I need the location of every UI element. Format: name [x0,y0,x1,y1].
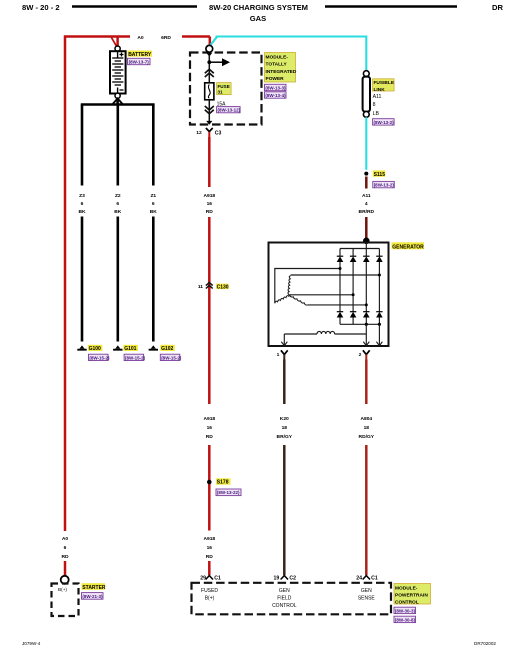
wire TIPM tap red drop [209,37,212,46]
wire label K20 [277,416,293,440]
svg-text:(8W-13-2): (8W-13-2) [374,120,395,125]
svg-text:GAS: GAS [250,14,266,23]
PCM pin name GEN FIELD CONTROL [272,588,297,609]
stator phase line 3 [290,294,354,296]
svg-text:RD: RD [61,554,69,560]
TIPM internal wire lower [208,100,210,122]
starter box [52,584,79,617]
svg-text:RD: RD [206,554,214,560]
connector C130 label [216,284,229,291]
svg-text:A804: A804 [360,416,372,422]
svg-text:(8W-13-4): (8W-13-4) [265,93,286,98]
connector C3 [196,128,221,137]
PCM pin name FUSED B+ [201,588,218,602]
svg-text:12: 12 [196,130,202,136]
svg-text:LINK: LINK [374,87,386,93]
ground G102 link [160,354,182,360]
wire A804 lower [365,445,368,575]
svg-text:(8W-13-2): (8W-13-2) [374,183,395,188]
svg-text:C130: C130 [217,284,229,290]
diode D2 top [350,256,357,262]
svg-text:BR/GY: BR/GY [277,434,293,440]
TIPM junction dot [207,60,211,64]
svg-text:BK: BK [78,209,86,215]
svg-text:BATTERY: BATTERY [128,52,152,58]
svg-text:(8W-13-3): (8W-13-3) [265,85,286,90]
wire label A918 upper [203,193,215,215]
stator phase line 1 [275,269,340,304]
starter label [82,583,106,591]
svg-text:DR702002: DR702002 [474,641,496,646]
TIPM exit arrowhead [206,121,212,125]
ground G101 label [123,345,137,352]
svg-text:(8W-30-8): (8W-30-8) [395,617,416,622]
stator coil B [275,295,290,303]
svg-text:BK: BK [150,209,158,215]
svg-text:C3: C3 [215,131,222,137]
stator coil C [290,295,308,305]
battery [110,51,126,93]
svg-text:(8W-13-7): (8W-13-7) [129,59,150,64]
generator B+ junction dot [363,238,370,245]
wire A11 BR/RD lower [365,217,368,239]
splice S115 [364,172,368,176]
battery link label [128,58,151,64]
svg-text:18: 18 [282,425,288,431]
field winding [284,324,379,345]
svg-text:(8W-15-2): (8W-15-2) [89,355,110,360]
battery label [128,51,153,58]
wire label A0 lower [61,536,69,560]
wire K20 lower [283,445,286,575]
ground G102 [149,345,158,349]
TIPM connector chevrons upper [205,69,214,77]
svg-text:A11: A11 [362,193,371,199]
diode D7 bottom [363,312,370,318]
TIPM branch arrow [209,58,230,66]
PCM terminal 29 [200,575,221,581]
stator phase line 4 [308,304,366,306]
fuse link label [217,107,241,113]
PCM module label [394,584,431,606]
svg-text:POWER: POWER [266,76,285,82]
generator pin 2 connector [359,350,370,359]
svg-text:BR/RD: BR/RD [359,209,375,215]
svg-text:(8W-13-12): (8W-13-12) [218,108,241,113]
generator label [392,242,425,250]
svg-text:(8W-15-2): (8W-15-2) [125,355,146,360]
svg-text:GEN: GEN [279,588,290,594]
svg-text:16: 16 [207,425,213,431]
svg-text:6: 6 [152,201,155,207]
svg-text:RD/GY: RD/GY [359,434,375,440]
svg-text:G101: G101 [124,346,136,352]
generator box [269,243,389,347]
svg-text:(8W-15-2): (8W-15-2) [161,355,182,360]
svg-text:CONTROL: CONTROL [395,599,419,605]
TIPM box [190,53,262,125]
fusible link wire labels [373,94,382,117]
wire A804 upper [365,360,368,405]
splice S115 label [373,170,386,177]
svg-text:1: 1 [277,352,280,358]
splice S178 label [216,478,231,485]
fuse F31 [205,83,214,100]
wire label A11 [359,193,375,215]
svg-text:C2: C2 [289,576,296,582]
ground bus [81,103,155,106]
PCM link 1 [394,607,416,613]
wire A0 6RD top horizontal [65,37,210,532]
svg-text:(8W-30-3): (8W-30-3) [395,608,416,613]
svg-text:A0: A0 [62,536,69,542]
svg-text:A918: A918 [203,193,215,199]
svg-text:8: 8 [373,102,376,108]
wire label Z2 [114,193,122,215]
wire A918 lower [208,445,211,531]
svg-text:A918: A918 [203,536,215,542]
header right rule [325,5,457,7]
starter terminal circle [61,576,69,584]
wire battery tap [111,37,117,47]
svg-text:11: 11 [198,284,203,290]
diode D1 top [337,256,344,262]
wire Z3 [81,105,84,342]
svg-text:S115: S115 [374,172,386,178]
wire label A918 lower [203,536,215,560]
TIPM entry arrowhead [206,53,212,57]
wire A918 to PCM [208,561,211,575]
svg-text:8W-20 CHARGING SYSTEM: 8W-20 CHARGING SYSTEM [209,3,308,12]
generator rectifier [340,243,379,325]
ground G101 [113,345,122,349]
svg-text:RD: RD [206,209,214,215]
wire label A804 [359,416,375,440]
svg-text:6RD: 6RD [161,35,171,41]
svg-text:6: 6 [116,201,119,207]
PCM terminal 19 [274,575,297,581]
wire LB cyan lower [365,117,367,170]
svg-text:4: 4 [365,201,368,207]
stator coil A [288,276,291,295]
svg-text:BK: BK [114,209,122,215]
svg-text:31: 31 [218,90,224,95]
svg-text:J079W-4: J079W-4 [22,641,41,646]
wire A11 BR/RD stub [365,177,368,189]
svg-text:6: 6 [64,545,67,551]
generator pin arrows [281,342,382,346]
svg-text:A11: A11 [373,94,382,100]
svg-text:SENSE: SENSE [358,595,376,601]
svg-text:GENERATOR: GENERATOR [392,244,424,250]
PCM terminal 24 [356,575,378,581]
TIPM link 2 [265,92,287,98]
svg-text:Z2: Z2 [115,193,121,199]
svg-text:POWERTRAIN: POWERTRAIN [395,593,428,599]
svg-text:MODULE-: MODULE- [266,55,289,61]
svg-text:FUSIBLE: FUSIBLE [374,80,395,86]
TIPM module label [265,53,297,83]
svg-text:S178: S178 [217,480,229,486]
svg-text:16: 16 [207,201,213,207]
fuse label [217,83,232,95]
ground G100 [77,345,86,349]
wire Z2 [117,105,120,342]
battery negative terminal circle [115,93,120,98]
svg-text:FUSE: FUSE [218,84,230,89]
wire A918 upper [208,137,211,187]
fusible link label [373,79,395,93]
svg-text:C1: C1 [371,576,378,582]
splice S178 [207,480,212,485]
svg-text:MODULE-: MODULE- [395,586,418,592]
ground G102 label [160,345,175,352]
svg-text:19: 19 [274,575,280,581]
PCM pin name GEN SENSE [358,588,376,602]
PCM link 2 [394,616,416,622]
wire A0 to starter [64,561,67,576]
svg-text:GEN: GEN [361,588,372,594]
wire A918 mid1 [208,217,211,404]
svg-text:A0: A0 [137,35,144,41]
header left rule [72,5,197,7]
TIPM connector chevrons lower [205,106,214,114]
svg-text:K20: K20 [280,416,289,422]
svg-text:TOTALLY: TOTALLY [266,62,288,68]
ground G100 label [88,345,103,352]
wire label Z1 [150,193,158,215]
battery B+ terminal circle [115,46,120,51]
svg-text:STARTER: STARTER [82,585,106,591]
wire K20 upper [283,360,286,405]
svg-text:Z3: Z3 [79,193,85,199]
svg-text:RD: RD [206,434,214,440]
svg-text:A918: A918 [203,416,215,422]
splice S115 link [373,181,395,187]
svg-text:(8W-13-22): (8W-13-22) [217,490,240,495]
svg-text:29: 29 [200,575,206,581]
diode D6 bottom [350,312,357,318]
svg-text:DR: DR [492,3,503,12]
svg-text:FIELD: FIELD [277,595,292,601]
svg-text:24: 24 [356,575,362,581]
svg-text:Z1: Z1 [150,193,156,199]
svg-text:(8W-21-3): (8W-21-3) [82,594,103,599]
wire label A918 mid [203,416,215,440]
stator junction dots [339,267,382,326]
wire cyan horizontal [216,37,367,71]
TIPM link 1 [265,84,287,90]
svg-text:LB: LB [373,111,380,117]
diode D3 top [363,256,370,262]
svg-text:6: 6 [81,201,84,207]
svg-text:B(+): B(+) [58,587,67,592]
svg-text:16: 16 [207,545,213,551]
TIPM terminal circle [206,45,213,52]
fusible link link [373,119,395,125]
stator phase line 2 [291,274,380,276]
diode D4 top [376,256,383,262]
ground G101 link [124,354,146,360]
wire Z1 [152,105,155,342]
PCM box [192,583,392,615]
svg-text:FUSED: FUSED [201,588,218,594]
svg-text:CONTROL: CONTROL [272,603,297,609]
svg-text:18: 18 [364,425,370,431]
generator pin 1 connector [277,350,288,359]
svg-text:2: 2 [359,352,362,358]
splice S178 link [216,489,241,496]
diode D8 bottom [376,312,383,318]
starter link [82,593,104,600]
svg-text:INTEGRATED: INTEGRATED [266,69,297,75]
diode D5 bottom [337,312,344,318]
TIPM internal wire [208,55,210,83]
connector C130 [198,283,213,290]
svg-text:B(+): B(+) [205,595,215,601]
battery ground arrowhead [113,98,123,104]
fusible link [363,71,370,118]
svg-text:G102: G102 [161,346,173,352]
svg-text:8W - 20 - 2: 8W - 20 - 2 [22,3,60,12]
ground G100 link [89,354,111,360]
wire cyan diagonal [210,37,217,46]
wire label Z3 [78,193,86,215]
svg-text:C1: C1 [214,576,221,582]
svg-text:G100: G100 [89,346,101,352]
